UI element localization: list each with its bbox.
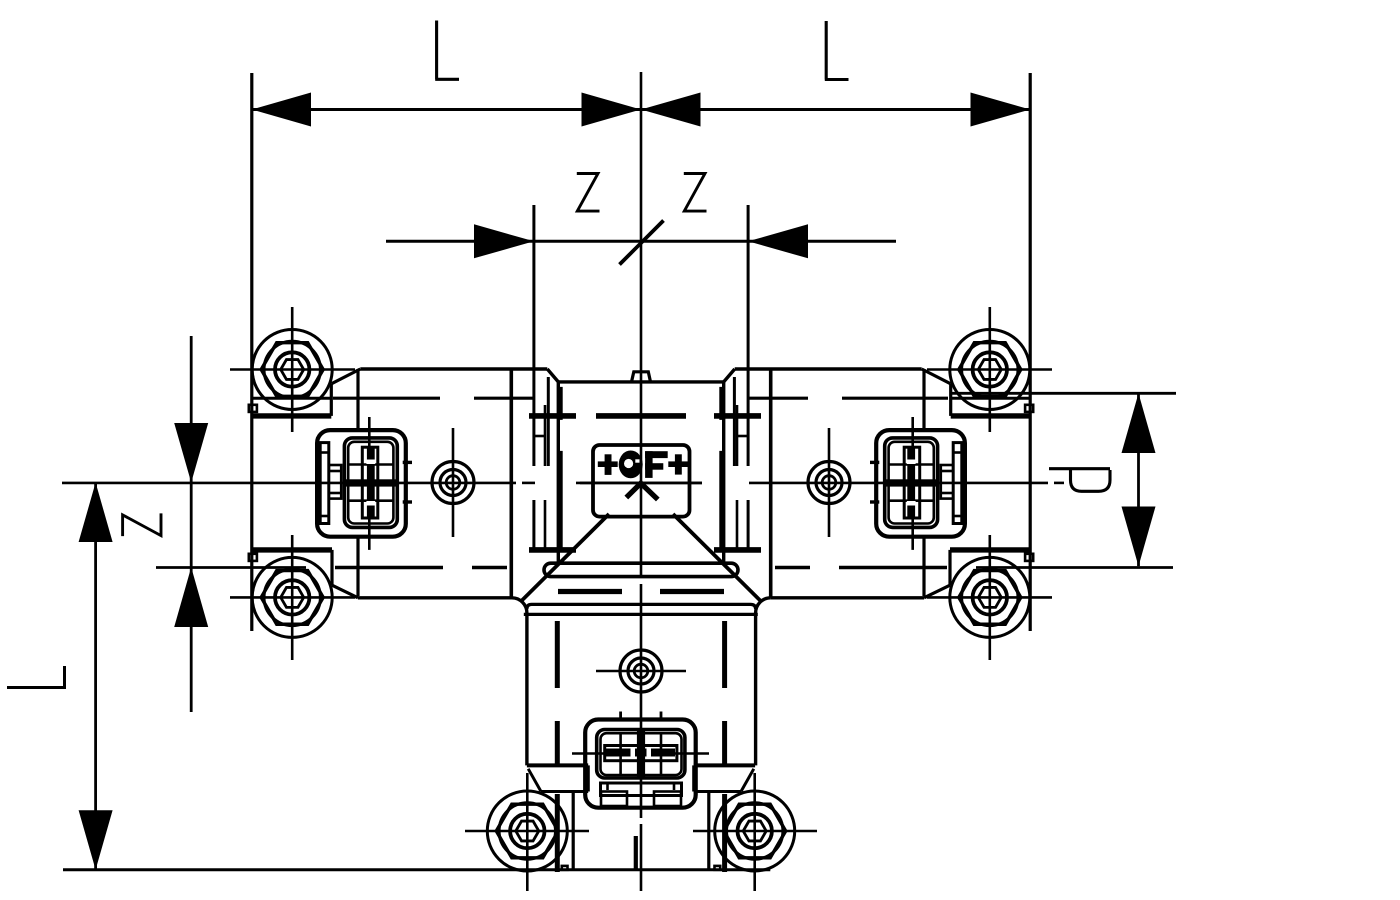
logo plus left horizontal <box>598 461 618 467</box>
cap line y=416 thick <box>951 413 1030 418</box>
screw left <box>432 462 474 504</box>
notch bottom <box>249 554 257 561</box>
left clamp jaw step bottom <box>329 493 341 499</box>
left clamp inner frame <box>344 438 397 528</box>
bolt top-right <box>950 330 1030 410</box>
extension tail y=567.5 <box>156 566 306 569</box>
left clamp dark insert bar <box>367 448 375 517</box>
logo F mid bar <box>645 463 663 470</box>
cap line y=398 <box>252 397 331 400</box>
cap line y=398 <box>951 397 1030 400</box>
hidden row y=416 thick dash segments <box>529 413 576 419</box>
extension line lower y=567.5 <box>976 566 1173 569</box>
junction fillet left <box>512 598 527 613</box>
hidden row y=398 dash segments <box>333 397 440 400</box>
left lobe top <box>527 763 588 767</box>
extension line right (x=1030.2) merged with right end face <box>1029 73 1032 631</box>
logo G body <box>619 451 643 479</box>
right clamp insert notch bottom <box>907 501 916 506</box>
bottom clamp insert notch left <box>631 748 636 757</box>
crosshair bottom-left bolt <box>230 596 355 599</box>
left clamp grid line bottom <box>348 499 393 502</box>
arrow L upper <box>79 483 113 543</box>
cap line y=416 thick <box>252 413 331 418</box>
notch bottom <box>1025 554 1033 561</box>
branch bore hidden right x=725 <box>722 621 727 872</box>
arrow left L inner <box>582 93 642 127</box>
central block top edge <box>558 380 723 383</box>
left clamp grid line top <box>348 463 393 466</box>
arrow right L inner <box>641 93 701 127</box>
right clamp latch tick bottom <box>953 515 962 518</box>
crosshair branch-left bolt <box>465 830 589 833</box>
thin vertical right x=734.5 <box>733 377 736 466</box>
cap edge vertical top <box>330 384 333 416</box>
right lobe notch <box>715 866 721 870</box>
bottom clamp foot left <box>601 792 627 807</box>
bolt crosshairs <box>230 307 1052 891</box>
bottom clamp stub right <box>660 712 663 720</box>
dimension line Z-Z (y=241.3) <box>386 240 896 243</box>
cap edge vertical bottom <box>330 550 333 585</box>
left clamp insert notch top <box>366 460 375 465</box>
tube top edge left <box>360 367 547 370</box>
branch collar lower <box>524 613 758 616</box>
block chamfer left <box>547 369 558 382</box>
cap edge vertical top <box>949 384 952 416</box>
hidden row y=550 thick dash segments <box>529 547 576 553</box>
crosshair branch-right bolt <box>693 830 817 833</box>
left clamp latch tick top <box>320 451 329 454</box>
logo G notch <box>635 459 639 462</box>
junction collar capsule <box>544 563 738 576</box>
block side right <box>722 382 725 563</box>
label L rotated <box>7 666 65 689</box>
hidden row y=567.5 dash segments <box>335 566 443 569</box>
branch bore hidden left x=557 <box>555 621 560 872</box>
branch side left <box>525 613 528 765</box>
right clamp grid line top <box>889 463 934 466</box>
Z extension / socket depth left x=534 <box>532 205 535 552</box>
left lobe notch <box>562 866 568 870</box>
bottom clamp latch bar <box>601 783 682 796</box>
arrow Z right <box>748 224 808 258</box>
notch top <box>1025 405 1033 412</box>
bottom clamp grid line left <box>619 733 622 775</box>
bottom extension line y=869.8 <box>63 868 770 871</box>
left clamp side tick bottom <box>403 500 412 503</box>
hidden row y=591.5 dashes <box>558 589 622 594</box>
left clamp inner frame 2 <box>348 442 393 524</box>
cap edge vertical bottom <box>948 550 951 585</box>
bottom clamp inner frame <box>597 730 685 779</box>
inner dash right x=737 <box>736 405 739 551</box>
bottom clamp slot <box>605 746 677 761</box>
arrow Z lower (up to socket line) <box>174 567 208 627</box>
label L left <box>435 21 459 80</box>
branch side right <box>754 613 757 765</box>
bottom clamp foot right <box>654 792 681 807</box>
left lobe diagonal <box>528 769 541 792</box>
bolt branch-left <box>487 791 567 871</box>
tube bottom edge right <box>770 596 924 599</box>
funnel diagonal left <box>522 514 610 601</box>
right clamp grid line bottom <box>889 499 934 502</box>
inner dash left x=545 <box>544 405 547 551</box>
logo F top bar <box>645 451 668 458</box>
logo plus right vertical <box>675 454 682 474</box>
logo chevron mark <box>626 483 658 499</box>
socket line right x=771 <box>769 369 773 598</box>
right clamp vertical centerline <box>911 417 914 550</box>
right clamp inner frame <box>885 438 938 528</box>
bolt branch-right <box>715 791 795 871</box>
bottom clamp stub left <box>619 712 622 720</box>
cap chamfer bottom <box>332 585 358 598</box>
cap line y=550 thick <box>252 547 332 552</box>
left clamp slot <box>362 447 378 518</box>
oblique slash at center <box>620 221 664 265</box>
bottom clamp center band <box>637 731 645 779</box>
left clamp center band <box>345 479 397 486</box>
extension line upper y=393.3 <box>951 392 1177 395</box>
left clamp vertical centerline <box>368 417 371 550</box>
left clamp latch tick bottom <box>320 515 329 518</box>
right clamp latch tick top <box>953 451 962 454</box>
arrow right L outer <box>971 93 1031 127</box>
bottom clamp horizontal centerline <box>572 752 709 755</box>
right lobe diagonal <box>741 769 754 792</box>
right clamp slot <box>904 447 920 518</box>
logo F stem <box>645 451 653 478</box>
block chamfer right <box>724 369 735 382</box>
right lobe step vertical <box>692 765 695 791</box>
Z extension / socket depth right x=748 <box>747 205 750 552</box>
left clamp insert notch bottom <box>366 501 375 506</box>
crosshair bottom-right bolt <box>927 596 1052 599</box>
left lobe step vertical <box>587 765 590 791</box>
left clamp side tick top <box>403 461 412 464</box>
arrow Z upper (down to centerline) <box>174 423 208 483</box>
bottom clamp inner frame 2 <box>601 733 682 775</box>
right lobe step horizontal <box>694 790 741 793</box>
label Z rotated <box>123 513 161 536</box>
label L right <box>825 21 849 80</box>
right clamp center band <box>886 479 938 486</box>
bottom clamp latch tick left <box>606 783 609 790</box>
left lobe side <box>572 792 575 870</box>
bottom clamp foot bridge <box>627 794 654 797</box>
screw right <box>808 462 850 504</box>
dimension line x=1138.5 <box>1137 393 1140 566</box>
vertical centerline segments <box>640 72 643 891</box>
dimension line L-L (y=109.5) <box>252 108 1031 111</box>
right clamp jaw step bottom <box>941 493 953 499</box>
right clamp outer frame <box>876 430 965 537</box>
logo plus left vertical <box>605 454 612 475</box>
tube top edge right <box>735 367 922 370</box>
right clamp side tick bottom <box>870 500 879 503</box>
label Z right <box>684 174 707 212</box>
bottom clamp dark insert bar <box>606 749 675 757</box>
block bore hidden right x=722 <box>719 387 724 552</box>
bridge tick right <box>737 435 748 438</box>
cap line y=550 thick <box>950 547 1030 552</box>
logo G counter <box>624 459 633 468</box>
notch top <box>249 405 257 412</box>
bridge tick left <box>534 435 545 438</box>
cap chamfer top <box>922 369 951 384</box>
dimension line x=191.2 <box>190 336 193 712</box>
bottom clamp grid line right <box>660 733 663 775</box>
bottom clamp insert notch right <box>647 748 652 757</box>
right clamp jaw step top <box>941 465 953 471</box>
arrow Z left <box>474 224 534 258</box>
bottom clamp latch tick right <box>673 783 676 790</box>
label d rotated <box>1049 469 1110 492</box>
bolt bottom-left <box>252 557 332 637</box>
right clamp jaw edge <box>939 471 942 493</box>
right lobe top <box>694 763 755 767</box>
left clamp outer frame <box>317 430 406 537</box>
thin vertical left x=548 <box>547 377 550 466</box>
arrow d lower <box>1122 507 1156 567</box>
right lobe side <box>707 792 710 870</box>
cap chamfer bottom <box>924 585 950 598</box>
horizontal centerline segments <box>62 482 1064 485</box>
right clamp dark insert bar <box>907 448 915 517</box>
socket line left x=511 <box>509 369 513 598</box>
branch collar upper <box>527 604 756 609</box>
extension line left (x=251.8) merged with left end face <box>250 73 253 631</box>
label Z left <box>577 174 600 212</box>
arrow L lower <box>79 810 113 870</box>
arrow d upper <box>1122 393 1156 453</box>
right clamp latch bar <box>953 443 962 524</box>
bolt top-left <box>252 330 332 410</box>
left lobe step horizontal <box>541 790 588 793</box>
bottom clamp outer frame <box>585 720 696 808</box>
right clamp inner frame 2 <box>889 442 934 524</box>
right clamp side tick top <box>870 461 879 464</box>
left clamp jaw step top <box>329 465 341 471</box>
junction fillet right <box>756 598 771 613</box>
logo box <box>593 445 690 517</box>
cap chamfer top <box>331 369 360 384</box>
block side left <box>557 382 560 563</box>
rib dash near branch centerline <box>634 836 638 870</box>
cap inner verticals x=358 / x=924 <box>356 369 359 430</box>
tube bottom edge left <box>358 596 512 599</box>
centerline solid through logo box <box>580 482 702 485</box>
top tab <box>632 372 651 382</box>
block bore hidden left x=560 <box>558 387 563 552</box>
left clamp latch bar <box>320 443 329 524</box>
arrow left L outer <box>252 93 311 127</box>
right clamp insert notch top <box>907 460 916 465</box>
screw branch <box>620 650 662 692</box>
bolt bottom-right <box>950 557 1030 637</box>
funnel diagonal right <box>673 514 761 601</box>
crosshair top-right bolt <box>927 368 1052 371</box>
logo plus right horizontal <box>668 461 688 467</box>
left clamp jaw edge <box>340 471 343 493</box>
crosshair top-left bolt <box>230 368 355 371</box>
